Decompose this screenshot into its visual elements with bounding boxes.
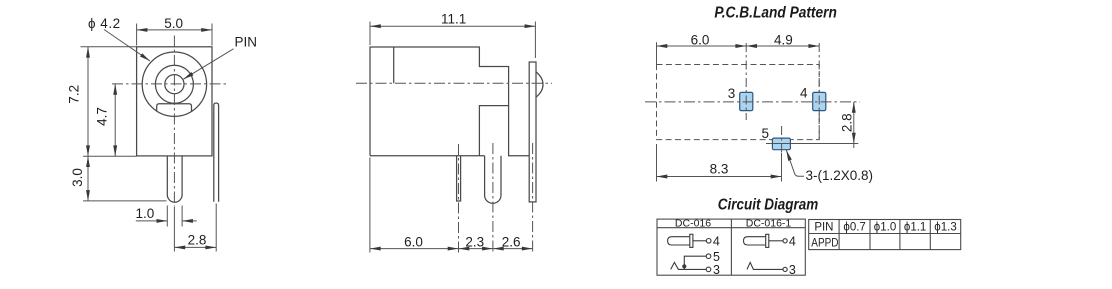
center pin circle [165, 75, 184, 94]
pin center lines [458, 144, 460, 253]
svg-text:Circuit Diagram: Circuit Diagram [718, 196, 819, 213]
svg-text:2.3: 2.3 [465, 234, 484, 249]
top dim extensions [656, 42, 658, 64]
phi4.2 leader arrow [140, 53, 151, 62]
dim 2.6 arrows [493, 247, 504, 251]
terminal 3 [783, 267, 787, 271]
dim 1.0 line right [182, 220, 197, 222]
pad slot leader arrow [784, 149, 791, 160]
pin size table [809, 220, 961, 250]
svg-text:ϕ1.0: ϕ1.0 [874, 222, 896, 234]
table row divider [809, 233, 961, 235]
dim 7.2 bottom extension [83, 155, 137, 157]
dim 8.3 arrows [657, 175, 668, 179]
svg-text:5: 5 [761, 126, 769, 141]
DC-016 pin contact bar [690, 234, 693, 247]
svg-text:3: 3 [728, 86, 736, 101]
footprint dashed outline [657, 65, 820, 140]
key slot [157, 104, 192, 112]
dim 2.8 extension [766, 143, 858, 145]
vertical center line [173, 36, 175, 207]
terminal 4 [783, 239, 787, 243]
dim phi4.2 leader [104, 30, 150, 62]
pad4 center line [818, 43, 820, 140]
svg-text:ϕ 4.2: ϕ 4.2 [88, 16, 121, 31]
dim 4.7 arrows [113, 84, 117, 95]
pin tip extension [83, 200, 167, 202]
plate bump [536, 72, 543, 97]
svg-text:3.0: 3.0 [70, 168, 85, 187]
bottom left extension [369, 158, 371, 253]
DC-016-1 center pin barrel [744, 237, 766, 245]
pad 4 [813, 92, 826, 110]
pad5 center line [781, 126, 783, 153]
dim 4.7 line [114, 84, 116, 156]
terminal 3 [706, 267, 711, 272]
dim 7.2 top extension [81, 46, 137, 48]
dim 5.0 extension lines [136, 24, 138, 46]
svg-text:3: 3 [789, 263, 796, 277]
branch wire to terminal 5 [684, 256, 706, 269]
svg-text:4: 4 [789, 235, 796, 249]
dim 2.8 line [174, 246, 216, 248]
svg-text:6.0: 6.0 [691, 32, 710, 47]
switch spring contact and wire to terminal 3 [671, 262, 707, 269]
dim 8.3 line [657, 176, 782, 178]
dim 2.8 arrows [174, 245, 185, 249]
horizontal center line [356, 82, 552, 84]
pad5 lower extension [781, 153, 783, 182]
dim 6.0 arrows [657, 44, 668, 48]
svg-text:1.0: 1.0 [136, 206, 155, 221]
dim 2.3 arrows [459, 247, 470, 251]
dim 2.8 line [853, 102, 855, 148]
junction dot [682, 264, 686, 268]
body bottom edge [370, 155, 485, 157]
leader 3-(1.2X0.8) [786, 150, 804, 176]
pad 5 [772, 138, 790, 150]
barrel outer circle [142, 52, 206, 116]
dim 3.0 arrows [86, 156, 90, 167]
dim 11.1 extensions [369, 22, 371, 46]
box column divider [730, 219, 732, 275]
svg-text:DC-016: DC-016 [675, 218, 711, 230]
svg-text:5.0: 5.0 [164, 16, 183, 31]
svg-text:4: 4 [713, 235, 720, 249]
svg-text:ϕ1.3: ϕ1.3 [934, 222, 956, 234]
svg-text:2.6: 2.6 [502, 234, 521, 249]
dim 8.3 left extension [656, 144, 658, 182]
dim 7.2 arrows [86, 47, 90, 58]
dim 2.8 extensions [173, 207, 175, 252]
center pin terminal [167, 156, 182, 202]
top dim line [657, 45, 820, 47]
dim 11.1 arrows [370, 24, 381, 28]
svg-text:PIN: PIN [814, 222, 833, 234]
dim 6.0 arrows [370, 247, 381, 251]
barrel middle circle [155, 65, 193, 103]
svg-text:2.8: 2.8 [188, 233, 207, 248]
svg-text:6.0: 6.0 [404, 234, 423, 249]
table column lines [838, 220, 840, 250]
terminal 4 [706, 239, 711, 244]
wire to terminal 4 [769, 240, 783, 242]
box header rule [657, 227, 805, 229]
dim 5.0 line [137, 29, 212, 31]
terminal 5 [706, 254, 711, 259]
dim 2.8 arrows [852, 102, 856, 113]
pad 3 [740, 92, 753, 110]
front plate terminal [529, 62, 536, 202]
dim 1.0 arrows [157, 219, 168, 223]
svg-text:ϕ0.7: ϕ0.7 [843, 222, 865, 234]
body outline top [370, 47, 529, 156]
wire to terminal 4 [693, 240, 707, 242]
svg-text:7.2: 7.2 [66, 85, 81, 104]
svg-text:4.7: 4.7 [95, 107, 110, 126]
dim 4.9 arrows [746, 44, 757, 48]
svg-text:ϕ1.1: ϕ1.1 [904, 222, 926, 234]
dim 5.0 arrows [137, 28, 148, 32]
svg-text:3: 3 [713, 263, 720, 277]
bottom dim line [370, 248, 533, 250]
dim 1.0 line left [136, 220, 168, 222]
inner step line [393, 47, 395, 83]
svg-text:P.C.B.Land Pattern: P.C.B.Land Pattern [714, 5, 837, 22]
PIN leader [183, 49, 233, 80]
svg-text:4: 4 [800, 86, 808, 101]
DC-016 center pin barrel [668, 237, 690, 245]
jack body front outline [137, 47, 212, 156]
switch spring contact and wire to terminal 3 [747, 262, 783, 269]
dim 11.1 line [370, 25, 535, 27]
dim 7.2 line [87, 47, 89, 156]
DC-016-1 pin contact bar [766, 234, 769, 247]
svg-text:2.8: 2.8 [840, 113, 855, 132]
svg-text:4.9: 4.9 [774, 32, 793, 47]
svg-text:8.3: 8.3 [710, 161, 729, 176]
svg-text:PIN: PIN [235, 35, 258, 50]
inner slot lines [479, 106, 508, 156]
side flat terminal front [214, 103, 219, 202]
pad3 center line [745, 43, 747, 120]
middle pin (center terminal) [485, 156, 501, 204]
circuit variants box [657, 219, 805, 275]
PIN leader arrow [182, 72, 193, 81]
svg-text:APPD: APPD [811, 237, 838, 249]
svg-text:DC-016-1: DC-016-1 [746, 218, 792, 230]
dim 3.0 line [87, 156, 89, 201]
horizontal center line [645, 101, 860, 103]
pin edge extensions [166, 206, 168, 227]
svg-text:11.1: 11.1 [441, 12, 466, 27]
horizontal center line [112, 83, 228, 85]
shield pin thin [457, 156, 461, 201]
svg-text:3-(1.2X0.8): 3-(1.2X0.8) [806, 168, 874, 183]
